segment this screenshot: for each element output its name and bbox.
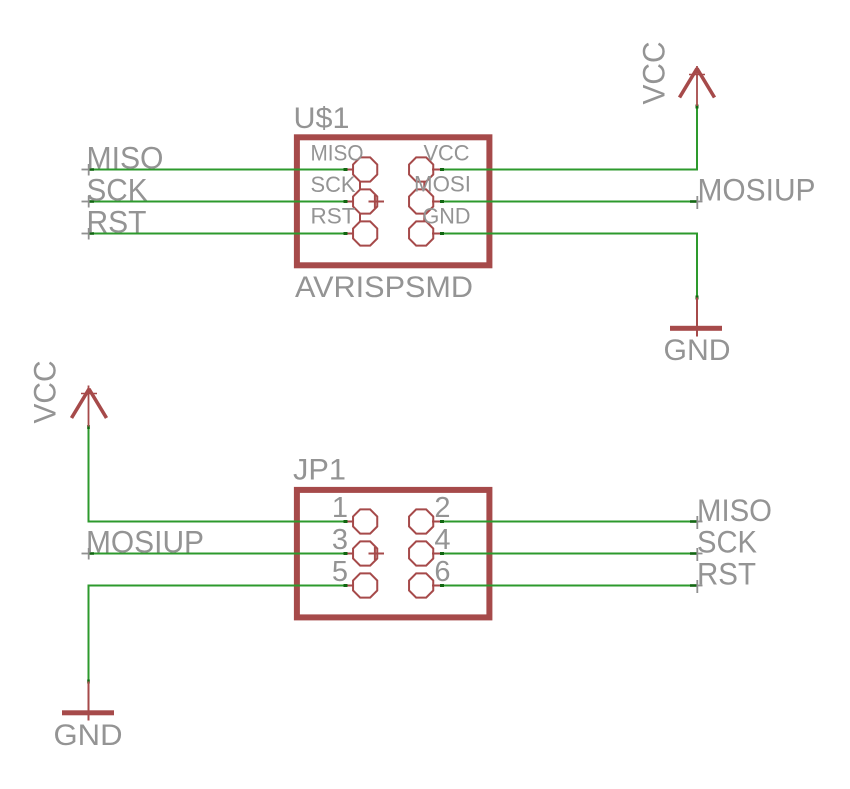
JP1 pin 2 stub bbox=[432, 521, 441, 523]
svg-text:MISO: MISO bbox=[311, 141, 364, 166]
svg-text:U$1: U$1 bbox=[294, 102, 350, 135]
U$1 pin 4 stub MOSI bbox=[432, 201, 441, 203]
svg-text:SCK: SCK bbox=[697, 524, 757, 560]
U$1 pin MISO pad circle bbox=[353, 157, 377, 181]
wire net VCC (right, row 1 up to supply arrow) bbox=[441, 106, 697, 170]
wire net MISO (left, row 1) bbox=[89, 169, 345, 171]
connector JP1 body outline bbox=[297, 490, 490, 618]
svg-text:MOSIUP: MOSIUP bbox=[86, 524, 204, 560]
U$1 pin VCC pad circle bbox=[409, 157, 433, 181]
wire net VCC (bottom left, from supply arrow to pin 1) bbox=[89, 427, 345, 522]
JP1 pin 1 stub bbox=[345, 521, 355, 523]
wire net GND (pin 5 down to ground symbol) bbox=[89, 586, 345, 682]
net label origin ticks (bottom) bbox=[82, 516, 703, 593]
svg-text:6: 6 bbox=[434, 556, 450, 588]
ground symbol GND (bottom left) bbox=[62, 682, 114, 721]
JP1 pin 2 pad circle bbox=[409, 509, 433, 533]
svg-text:MOSIUP: MOSIUP bbox=[698, 172, 816, 208]
U$1 pin MOSI pad circle bbox=[409, 189, 433, 213]
JP1 pin 4 stub bbox=[432, 553, 441, 555]
svg-text:RST: RST bbox=[87, 204, 147, 240]
JP1 pin 3 stub bbox=[345, 553, 355, 555]
JP1 origin cross bbox=[369, 547, 385, 560]
JP1 pin 5 stub bbox=[345, 585, 355, 587]
JP1 pin 6 stub bbox=[432, 585, 441, 587]
svg-text:RST: RST bbox=[697, 556, 756, 592]
JP1 pin 1 pad circle bbox=[353, 509, 377, 533]
wire net SCK (pin 4 to right) bbox=[441, 553, 697, 555]
wire net MOSIUP (right, row 2) bbox=[441, 201, 697, 203]
JP1 pin 5 pad circle bbox=[353, 573, 377, 597]
U$1 pin 2 stub VCC bbox=[432, 169, 441, 171]
svg-text:1: 1 bbox=[332, 492, 348, 524]
wire net RST (pin 6 to right) bbox=[441, 585, 697, 587]
wire endpoint junctions (bottom section) bbox=[87, 425, 697, 684]
svg-text:MISO: MISO bbox=[87, 140, 164, 176]
supply symbol VCC (top right) bbox=[680, 66, 715, 106]
net label origin ticks (top) bbox=[82, 164, 703, 240]
svg-text:MOSI: MOSI bbox=[414, 172, 471, 197]
connector U$1 body outline bbox=[297, 137, 490, 265]
wire net RST (left, row 3) bbox=[89, 233, 345, 235]
svg-text:RST: RST bbox=[311, 204, 356, 229]
U$1 pin 5 stub RST bbox=[345, 233, 355, 235]
wire net SCK (left, row 2) bbox=[89, 201, 345, 203]
svg-text:SCK: SCK bbox=[311, 172, 356, 197]
U$1 left column pad link stubs bbox=[359, 182, 361, 190]
svg-text:JP1: JP1 bbox=[293, 454, 346, 487]
U$1 pin RST pad circle bbox=[353, 221, 377, 245]
U$1 pin GND pad circle bbox=[409, 221, 433, 245]
U$1 pin SCK pad circle bbox=[353, 189, 377, 213]
U$1 pin 3 stub SCK bbox=[345, 201, 355, 203]
svg-text:VCC: VCC bbox=[636, 42, 672, 105]
svg-text:2: 2 bbox=[434, 492, 450, 524]
svg-text:GND: GND bbox=[664, 334, 731, 367]
svg-text:4: 4 bbox=[434, 524, 450, 556]
svg-text:VCC: VCC bbox=[27, 361, 63, 424]
wire endpoint junctions (top section) bbox=[89, 105, 699, 300]
U$1 origin cross bbox=[369, 195, 385, 208]
svg-text:SCK: SCK bbox=[87, 172, 148, 208]
JP1 pin 3 pad circle bbox=[353, 541, 377, 565]
wire net GND (right, row 3 down to ground) bbox=[441, 234, 697, 298]
U$1 pin 6 stub GND bbox=[432, 233, 441, 235]
U$1 pin 1 stub MISO bbox=[345, 169, 355, 171]
svg-text:VCC: VCC bbox=[424, 141, 470, 166]
svg-text:GND: GND bbox=[423, 204, 471, 229]
ground symbol GND (top right) bbox=[670, 298, 722, 337]
JP1 pin 4 pad circle bbox=[409, 541, 433, 565]
svg-text:3: 3 bbox=[332, 524, 348, 556]
svg-text:GND: GND bbox=[54, 719, 123, 752]
svg-text:AVRISPSMD: AVRISPSMD bbox=[295, 271, 473, 304]
svg-text:5: 5 bbox=[332, 556, 348, 588]
supply symbol VCC (bottom left) bbox=[72, 386, 107, 427]
wire net MISO (pin 2 to right) bbox=[441, 521, 697, 523]
JP1 pin 6 pad circle bbox=[409, 573, 433, 597]
U$1 right column pad link stubs bbox=[423, 182, 425, 190]
wire net MOSIUP (bottom left to pin 3) bbox=[88, 553, 345, 555]
